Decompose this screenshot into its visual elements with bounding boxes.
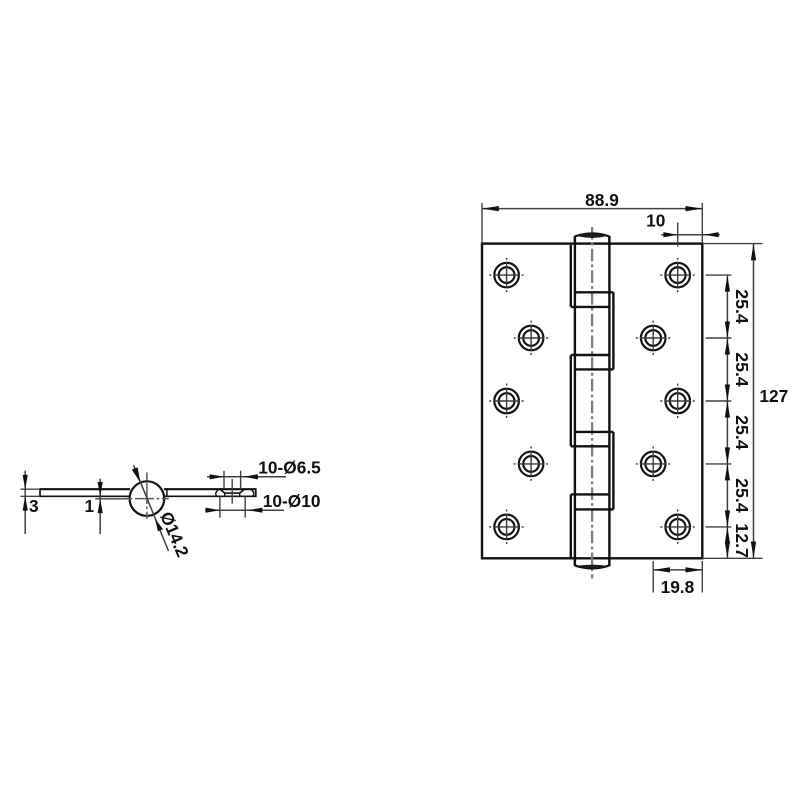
svg-text:10-Ø6.5: 10-Ø6.5 — [258, 457, 321, 477]
pin left rail — [574, 236, 576, 566]
dim 10-Ø6.5 arrow right — [244, 474, 258, 479]
chain arrow pair at 401.0 — [725, 385, 730, 402]
svg-text:19.8: 19.8 — [661, 577, 695, 597]
countersink cone left slant — [220, 489, 225, 493]
dim 19.8 arrow left — [653, 567, 670, 572]
countersink hole wall right — [239, 493, 241, 496]
row tick 3 — [706, 400, 732, 402]
sleeve 4 bottom edge — [575, 508, 614, 510]
pin right rail — [608, 236, 610, 566]
dim 10-Ø6.5 line — [207, 476, 286, 478]
svg-text:127: 127 — [759, 386, 788, 406]
dim 10 arrow right — [704, 232, 718, 237]
screw hole 4 — [636, 321, 671, 356]
dim 1 arrow down — [98, 482, 103, 496]
screw hole 10 — [660, 510, 695, 545]
dim 10-Ø10 line — [205, 509, 284, 511]
svg-text:1: 1 — [85, 496, 95, 516]
dim 3 arrow up — [23, 496, 28, 510]
dim 127 arrow top — [751, 244, 756, 261]
pin top cap crescent — [576, 234, 608, 238]
dim 10-Ø6.5 extension right — [240, 471, 242, 489]
dim 3 extension bottom — [21, 495, 41, 497]
dim 25.4 chain line — [726, 275, 728, 558]
svg-text:25.4: 25.4 — [732, 415, 752, 450]
sleeve right rail segment 2 — [612, 292, 614, 369]
bottom edge extension — [702, 557, 762, 559]
dim 10 line — [661, 234, 720, 236]
screw hole 2 — [660, 258, 695, 293]
dim 88.9 line — [482, 208, 702, 210]
dim 1 line — [99, 479, 101, 534]
pin top cap outline — [575, 234, 610, 244]
dim 88.9 extension left — [481, 203, 483, 243]
screw hole 5 — [489, 384, 524, 419]
chain arrow pair at 338.0 — [725, 322, 730, 339]
screw hole 1 — [489, 258, 524, 293]
right leaf bottom edge — [164, 495, 256, 497]
dim 19.8 extension right — [701, 561, 703, 593]
dim 10-Ø10 arrow left — [206, 508, 220, 513]
dim 19.8 extension left — [652, 561, 654, 593]
dim 10 arrow left — [663, 232, 677, 237]
row tick 5 — [706, 526, 732, 528]
countersink transition edge — [225, 492, 240, 494]
knuckle 3 top edge — [571, 354, 610, 356]
svg-text:25.4: 25.4 — [732, 289, 752, 324]
barrel circle horizontal centerline — [125, 498, 170, 500]
chain arrow pair at 463.9 — [725, 447, 730, 464]
dim 1 arrow up — [98, 499, 103, 513]
dim 19.8 line — [653, 569, 702, 571]
svg-text:25.4: 25.4 — [732, 478, 752, 513]
pin bottom cap crescent — [576, 565, 608, 569]
countersink cone right slant — [240, 489, 245, 493]
chain arrow pair at 526.9 — [725, 510, 730, 527]
dim 127 line — [753, 244, 755, 559]
left leaf top edge — [40, 488, 130, 490]
knuckle left rail segment 5 — [570, 494, 572, 557]
knuckle 1 bottom edge — [571, 306, 610, 308]
barrel centerline — [591, 227, 593, 579]
top edge extension — [702, 243, 762, 245]
dim 3 arrow down — [23, 475, 28, 489]
svg-text:12.7: 12.7 — [732, 523, 752, 558]
countersink hole centerline — [231, 479, 233, 504]
sleeve 2 top edge — [575, 291, 614, 293]
svg-text:10: 10 — [646, 210, 665, 230]
right leaf right end — [255, 488, 257, 497]
pin bottom cap outline — [575, 558, 610, 568]
chain arrows — [725, 275, 730, 558]
dim 3 extension top — [21, 488, 41, 490]
sleeve 4 top edge — [575, 431, 614, 433]
dim 88.9 arrow right — [686, 206, 703, 211]
screw hole 7 — [514, 447, 549, 482]
screw hole 9 — [489, 510, 524, 545]
dim Ø14.2 leader line — [134, 465, 169, 551]
barrel circle vertical centerline — [146, 472, 148, 521]
left leaf bottom edge — [40, 495, 131, 497]
countersink break line left — [216, 490, 219, 496]
dim 10 extension — [677, 223, 679, 247]
knuckle left rail segment 3 — [570, 355, 572, 446]
sleeve 2 bottom edge — [575, 368, 614, 370]
dim 3 line — [24, 471, 26, 534]
dim 1 extension — [95, 498, 127, 500]
svg-text:10-Ø10: 10-Ø10 — [263, 491, 321, 511]
dim 10-Ø6.5 extension left — [223, 471, 225, 489]
dim 10-Ø10 extension left — [219, 496, 221, 517]
dim 88.9 arrow left — [482, 206, 499, 211]
row tick 1 — [706, 274, 732, 276]
dim 10-Ø10 extension right — [244, 496, 246, 517]
screw hole 6 — [660, 384, 695, 419]
sleeve right rail segment 4 — [612, 432, 614, 510]
knuckle left rail segment 1 — [570, 245, 572, 307]
row tick 4 — [706, 463, 732, 465]
countersink hole wall left — [224, 493, 226, 496]
dim 88.9 extension right — [701, 203, 703, 243]
dim Ø14.2 arrow upper — [132, 467, 141, 482]
screw hole 8 — [636, 447, 671, 482]
right leaf left end edge — [166, 488, 168, 496]
screw hole 3 — [514, 321, 549, 356]
svg-text:25.4: 25.4 — [732, 352, 752, 387]
svg-text:88.9: 88.9 — [585, 190, 619, 210]
chain arrow at bottom edge — [725, 542, 730, 559]
dim 19.8 arrow right — [686, 567, 703, 572]
dim 127 arrow bottom — [751, 542, 756, 559]
countersink break line right — [251, 490, 254, 496]
screw holes — [489, 258, 695, 545]
hinge plate outline — [482, 244, 702, 559]
row tick 2 — [706, 337, 732, 339]
dim 10-Ø6.5 arrow left — [210, 474, 224, 479]
dim Ø14.2 arrow lower — [155, 519, 163, 531]
right leaf top edge — [164, 488, 256, 490]
svg-text:3: 3 — [29, 496, 39, 516]
knuckle 5 top edge — [571, 493, 610, 495]
barrel circle — [130, 481, 165, 516]
left leaf left end — [39, 488, 41, 497]
chain arrow at row 1 — [725, 275, 730, 292]
dim 10-Ø10 arrow right — [248, 508, 262, 513]
knuckle 3 bottom edge — [571, 445, 610, 447]
